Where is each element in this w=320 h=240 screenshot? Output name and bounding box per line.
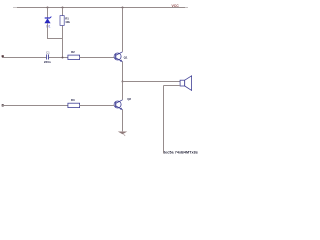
svg-text:tec5a 74xB4MTx8s: tec5a 74xB4MTx8s	[164, 150, 198, 154]
transistor Q1	[114, 52, 122, 62]
wire Q2 emitter down	[122, 110, 124, 132]
terminal input B (left bottom)	[2, 104, 4, 106]
wire bottom left segment	[2, 105, 68, 107]
terminal input C (left middle)	[2, 55, 4, 57]
wire speaker return down	[163, 86, 165, 154]
svg-text:Q1: Q1	[124, 55, 128, 59]
speaker LS1	[180, 76, 192, 91]
resistor R3	[68, 103, 80, 107]
wire Q1 collector up	[122, 8, 124, 52]
wire R1 branch top	[62, 8, 64, 16]
transistor Q2	[114, 100, 122, 110]
wire to speaker top	[123, 81, 181, 83]
wire diode branch bottom	[47, 23, 49, 38]
diode D1 (zener, cathode up)	[44, 17, 51, 24]
svg-text:10k: 10k	[65, 20, 70, 24]
node junction rail-Q1 collector	[122, 7, 124, 9]
svg-text:R3: R3	[71, 98, 75, 102]
wire diode to R1 bottom	[47, 38, 63, 40]
wire top power rail	[13, 7, 17, 9]
wire middle left segment	[2, 57, 46, 59]
wire bottom right segment to Q2 base	[80, 105, 115, 107]
svg-text:220n: 220n	[44, 60, 51, 64]
wire Q1 emitter down	[122, 62, 124, 82]
node junction speaker top	[122, 81, 124, 83]
node junction R1/middle wire	[62, 57, 64, 59]
svg-text:R2: R2	[71, 50, 75, 54]
resistor R2	[68, 55, 80, 59]
wire diode branch top	[47, 8, 49, 19]
svg-text:Q2: Q2	[127, 97, 131, 101]
wire junction down to Q2 collector	[122, 82, 124, 100]
resistor R1	[60, 16, 64, 26]
wire middle right segment to Q1 base	[80, 57, 115, 59]
wire middle mid segment	[49, 57, 68, 59]
svg-text:C1: C1	[46, 50, 50, 54]
wire speaker bottom terminal	[164, 85, 181, 87]
wire R1 branch down to middle wire	[62, 26, 64, 58]
node junction rail-R1	[62, 7, 64, 9]
svg-text:VCC: VCC	[172, 4, 180, 8]
capacitor C1 plates	[47, 54, 49, 59]
node junction rail-diode	[47, 7, 49, 9]
ground	[118, 132, 127, 136]
